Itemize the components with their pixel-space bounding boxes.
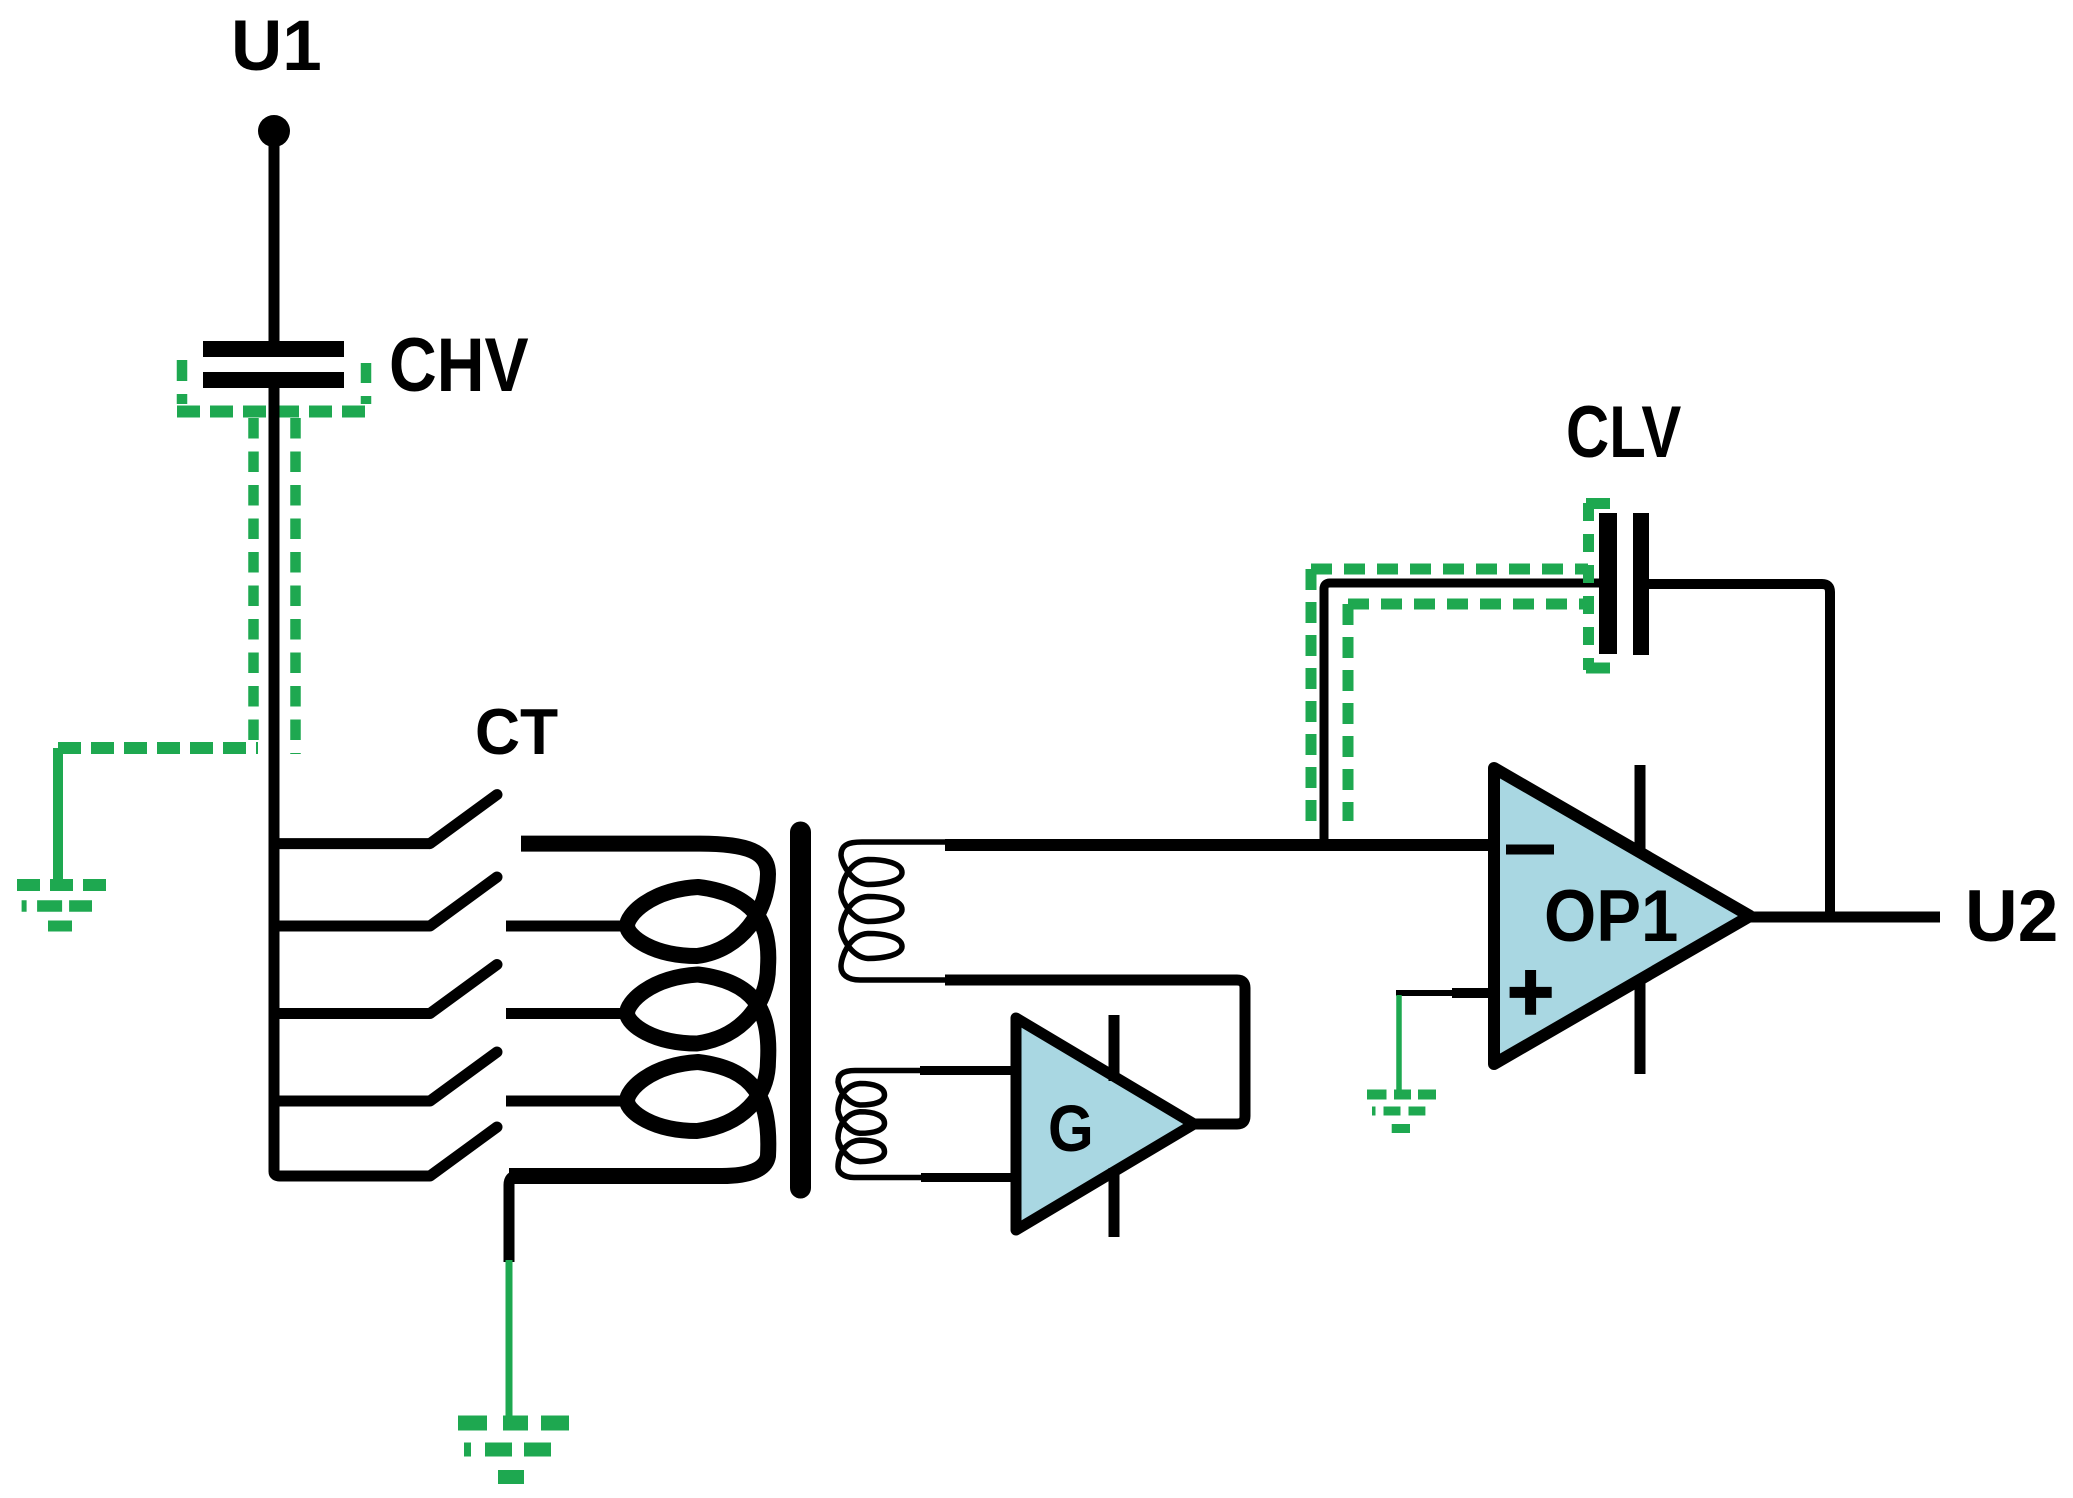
amplifier G body bbox=[1016, 1018, 1194, 1230]
OP1 top power pin bbox=[1635, 765, 1646, 856]
svg-text:CHV: CHV bbox=[389, 324, 529, 408]
G top power pin bbox=[1109, 1015, 1120, 1081]
transformer secondary winding (top) bbox=[841, 842, 947, 980]
node U1 terminal dot bbox=[258, 115, 290, 147]
guard shield bracket around CLV left plate bbox=[1586, 503, 1610, 670]
switch S5 blade (bottom) bbox=[430, 1127, 497, 1176]
capacitor CLV left plate bbox=[1599, 513, 1617, 654]
wire to G lower input bbox=[921, 1173, 1013, 1182]
switch S1 (lead + blade) bbox=[274, 838, 430, 849]
OP1 label bbox=[1544, 875, 1678, 956]
primary bottom corner drop bbox=[509, 1176, 530, 1262]
svg-text:U1: U1 bbox=[231, 7, 322, 86]
ground (OP1 +, green dashed) bbox=[1367, 1095, 1436, 1129]
switch S2 bbox=[274, 921, 430, 932]
output wire U2 bbox=[1750, 912, 1940, 923]
guard shield lower dashed run bbox=[1348, 599, 1588, 610]
transformer primary winding bbox=[509, 844, 768, 1176]
capacitor CHV label bbox=[389, 324, 529, 408]
feedback wire CLV to output bbox=[1649, 584, 1830, 917]
svg-text:CT: CT bbox=[475, 695, 558, 768]
guard shield upper dashed run bbox=[1311, 564, 1588, 575]
capacitor CLV right plate bbox=[1633, 513, 1649, 655]
tap changer label CT bbox=[475, 695, 558, 768]
switch S2 right lead bbox=[506, 921, 632, 932]
capacitor CLV label bbox=[1566, 392, 1682, 473]
green wire + input to ground bbox=[1396, 995, 1402, 1092]
guard shield inner dashed column bbox=[1343, 604, 1354, 821]
op-amp OP1 body bbox=[1494, 768, 1750, 1064]
svg-text:G: G bbox=[1048, 1092, 1094, 1166]
guard shield horizontal dashed run to ground bbox=[58, 742, 258, 754]
capacitor CHV top plate bbox=[203, 341, 344, 357]
transformer core bbox=[790, 832, 811, 1188]
switch S3 right lead bbox=[506, 1008, 632, 1019]
svg-text:OP1: OP1 bbox=[1544, 875, 1678, 956]
guard shield bracket around CHV lower plate (green dashed) bbox=[177, 360, 371, 412]
wire secondary-top to OP1 inverting input bbox=[945, 839, 1489, 851]
guard shield solid drop bbox=[53, 748, 63, 882]
switch S4 bbox=[274, 1096, 430, 1107]
guard shield outer dashed column bbox=[1306, 569, 1317, 821]
svg-text:CLV: CLV bbox=[1566, 392, 1682, 473]
svg-text:U2: U2 bbox=[1965, 876, 2058, 957]
OP1 bottom power pin bbox=[1635, 976, 1646, 1074]
ground (primary, green dashed) bbox=[458, 1423, 569, 1477]
OP1 inverting input mark bbox=[1506, 845, 1554, 855]
G bottom power pin bbox=[1109, 1168, 1120, 1237]
G label bbox=[1048, 1092, 1094, 1166]
bus wire CHV down to bottom branch bbox=[274, 388, 430, 1176]
wire to G upper input bbox=[920, 1066, 1013, 1075]
wire secondary-top lower terminal bbox=[945, 980, 1245, 1124]
green wire to primary ground bbox=[506, 1260, 513, 1422]
transformer secondary winding (bottom) bbox=[838, 1071, 921, 1178]
guard ground symbol (left, green dashed) bbox=[17, 885, 106, 926]
guard shield twin dashed columns along bus bbox=[248, 418, 259, 742]
feedback wire from inverting node up and to CLV bbox=[1324, 583, 1599, 845]
wire OP1 + input bbox=[1396, 990, 1489, 996]
wire U1 to CHV bbox=[269, 138, 280, 345]
capacitor CHV bottom plate bbox=[203, 372, 344, 388]
OP1 non-inverting input mark bbox=[1510, 987, 1552, 998]
switch S4 right lead bbox=[506, 1096, 632, 1107]
switch S3 bbox=[274, 1008, 430, 1019]
